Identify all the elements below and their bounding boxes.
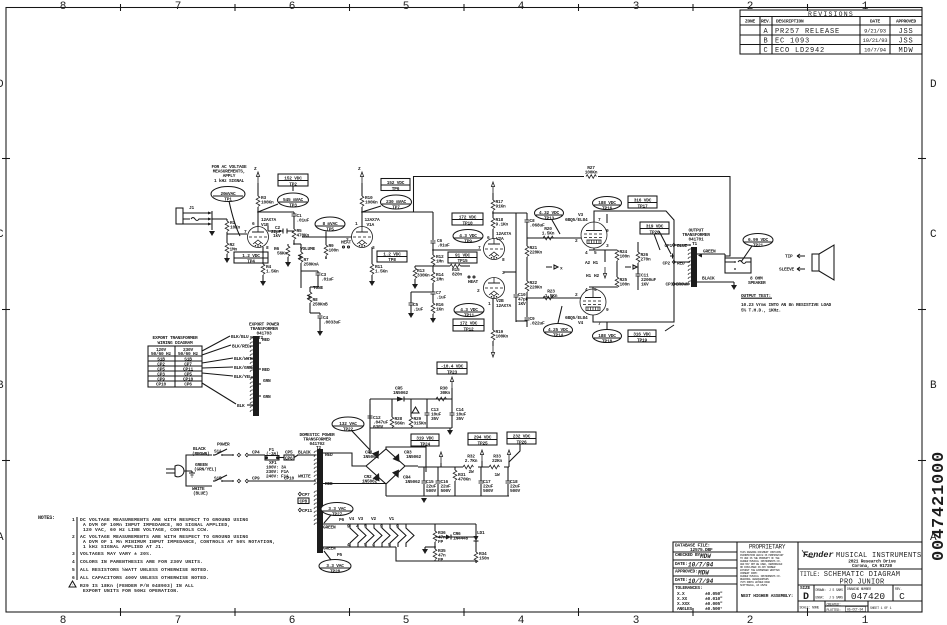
svg-text:CHECKED BY:: CHECKED BY: xyxy=(675,552,703,558)
svg-text:91Kn: 91Kn xyxy=(496,204,507,210)
svg-text:PRO JUNIOR: PRO JUNIOR xyxy=(839,579,885,587)
svg-text:MDW: MDW xyxy=(699,553,712,560)
svg-text:150n: 150n xyxy=(479,556,490,562)
svg-text:MDW: MDW xyxy=(697,570,710,577)
svg-text:WHITE: WHITE xyxy=(298,474,311,480)
svg-text:7: 7 xyxy=(175,1,182,13)
svg-text:4.25 VDC: 4.25 VDC xyxy=(548,327,569,333)
svg-text:56Kn: 56Kn xyxy=(395,421,406,427)
svg-text:T1: T1 xyxy=(692,241,698,247)
svg-text:FP: FP xyxy=(438,557,444,563)
svg-text:TP4: TP4 xyxy=(247,259,255,265)
svg-text:30Kn: 30Kn xyxy=(440,390,451,396)
svg-text:56Kn: 56Kn xyxy=(277,251,288,257)
svg-text:250KnB: 250KnB xyxy=(313,302,329,308)
svg-text:CP1: CP1 xyxy=(664,243,672,249)
svg-text:8: 8 xyxy=(60,1,67,13)
svg-text:GREEN: GREEN xyxy=(323,546,336,552)
svg-text:A: A xyxy=(0,532,4,544)
svg-text:.1uF: .1uF xyxy=(413,307,424,313)
svg-text:7: 7 xyxy=(175,615,182,625)
svg-text:TP6: TP6 xyxy=(392,186,400,192)
svg-text:CP3: CP3 xyxy=(665,282,673,288)
svg-text:TOLERANCES:: TOLERANCES: xyxy=(675,585,703,591)
svg-text:(GRN/YEL): (GRN/YEL) xyxy=(194,467,217,473)
svg-text:10Kn: 10Kn xyxy=(230,225,241,231)
svg-text:A2: A2 xyxy=(585,260,591,266)
svg-text:TP9: TP9 xyxy=(464,239,472,245)
svg-text:TP17: TP17 xyxy=(637,204,648,210)
svg-text:100Kn: 100Kn xyxy=(365,200,378,206)
svg-text:.068uF: .068uF xyxy=(530,223,546,229)
svg-text:CP8: CP8 xyxy=(300,499,308,505)
svg-text:TP12: TP12 xyxy=(463,327,474,333)
svg-text:DATE:: DATE: xyxy=(675,577,688,583)
svg-text:BLK/BLU: BLK/BLU xyxy=(231,334,249,340)
svg-text:1KV: 1KV xyxy=(641,282,649,288)
svg-text:C: C xyxy=(763,47,768,55)
svg-text:V1A: V1A xyxy=(367,222,375,228)
svg-text:RED: RED xyxy=(677,261,685,267)
svg-text:V4: V4 xyxy=(349,516,355,522)
svg-text:REVISIONS: REVISIONS xyxy=(808,11,854,18)
svg-text:294 VDC: 294 VDC xyxy=(474,435,492,441)
svg-text:047420: 047420 xyxy=(851,591,886,602)
svg-text:J1: J1 xyxy=(189,205,195,211)
svg-text:1.5Kn: 1.5Kn xyxy=(545,293,558,299)
svg-text:2: 2 xyxy=(72,534,75,540)
svg-text:TP23: TP23 xyxy=(447,370,458,376)
svg-text:GRN: GRN xyxy=(263,394,271,400)
svg-text:2W: 2W xyxy=(468,469,474,475)
svg-text:100Kn: 100Kn xyxy=(496,334,509,340)
svg-text:240V: F1A: 240V: F1A xyxy=(266,474,289,480)
svg-text:APPROVED: APPROVED xyxy=(896,19,917,25)
svg-text:100n: 100n xyxy=(620,282,631,288)
svg-text:120 VAC, 60 Hz LINE VOLTAGE, C: 120 VAC, 60 Hz LINE VOLTAGE, CONTROLS CC… xyxy=(83,527,209,533)
svg-text:4: 4 xyxy=(518,615,525,625)
svg-text:B: B xyxy=(763,38,768,46)
svg-text:152 VDC: 152 VDC xyxy=(387,180,405,186)
svg-text:470Kn: 470Kn xyxy=(297,233,310,239)
svg-text:5: 5 xyxy=(403,1,410,13)
svg-text:C: C xyxy=(899,591,905,602)
svg-text:630V: 630V xyxy=(373,424,384,430)
svg-text:!: ! xyxy=(72,584,74,587)
svg-text:CP11: CP11 xyxy=(302,508,313,514)
svg-text:RED: RED xyxy=(262,367,270,373)
svg-text:1.5Kn: 1.5Kn xyxy=(266,269,279,275)
svg-text:SLEEVE: SLEEVE xyxy=(779,267,795,273)
svg-text:100n: 100n xyxy=(620,254,631,260)
svg-text:WIRING DIAGRAM: WIRING DIAGRAM xyxy=(157,340,193,346)
svg-text:CP9: CP9 xyxy=(252,476,260,482)
svg-text:05-OCT-94: 05-OCT-94 xyxy=(847,608,863,612)
svg-text:2.7Kn: 2.7Kn xyxy=(465,458,478,464)
svg-text:DATE: DATE xyxy=(870,19,881,25)
svg-text:TP27: TP27 xyxy=(332,512,343,518)
svg-text:JSS: JSS xyxy=(898,38,913,46)
svg-text:(BROWN): (BROWN) xyxy=(192,451,210,457)
svg-text:1: 1 xyxy=(72,517,75,523)
svg-text:SPEAKER: SPEAKER xyxy=(748,280,766,286)
svg-text:10/21/93: 10/21/93 xyxy=(863,37,888,44)
svg-text:TP28: TP28 xyxy=(330,569,341,575)
svg-text:H1: H1 xyxy=(593,260,599,266)
svg-text:1N5062: 1N5062 xyxy=(405,479,421,485)
svg-text:SCALE: NONE: SCALE: NONE xyxy=(800,606,820,610)
svg-text:BROWN: BROWN xyxy=(676,282,689,288)
svg-text:5: 5 xyxy=(72,567,75,573)
svg-text:3: 3 xyxy=(72,551,75,557)
svg-text:316 VDC: 316 VDC xyxy=(633,332,651,338)
svg-text:4.32 VDC: 4.32 VDC xyxy=(539,210,560,216)
svg-text:1kV: 1kV xyxy=(273,233,281,239)
svg-text:TP11: TP11 xyxy=(464,313,475,319)
svg-text:22Kn: 22Kn xyxy=(492,458,503,464)
svg-text:10/7/94: 10/7/94 xyxy=(864,47,887,54)
svg-text:J S SAMS: J S SAMS xyxy=(829,596,843,600)
svg-text:20mVAC: 20mVAC xyxy=(220,191,236,197)
svg-text:132 VAC: 132 VAC xyxy=(339,421,357,427)
svg-text:1N5062: 1N5062 xyxy=(363,454,379,460)
svg-text:GREEN: GREEN xyxy=(323,525,336,531)
svg-text:500V: 500V xyxy=(510,488,521,494)
svg-text:ZONE: ZONE xyxy=(745,19,756,25)
svg-text:188 VDC: 188 VDC xyxy=(598,200,616,206)
svg-text:TP7: TP7 xyxy=(392,205,400,211)
svg-text:12AX7A: 12AX7A xyxy=(496,303,512,309)
svg-text:50/60 Hz: 50/60 Hz xyxy=(151,351,172,357)
svg-text:EXPORT UNITS FOR 50Hz OPERATIO: EXPORT UNITS FOR 50Hz OPERATION. xyxy=(83,588,179,594)
svg-text:BLACK: BLACK xyxy=(702,276,715,282)
svg-text:PROPRIETARY: PROPRIETARY xyxy=(749,544,786,551)
svg-text:CP10: CP10 xyxy=(156,382,167,388)
svg-text:TP19: TP19 xyxy=(637,338,648,344)
svg-text:6BQ5/EL84: 6BQ5/EL84 xyxy=(565,315,588,321)
svg-text:LD1: LD1 xyxy=(477,530,485,536)
svg-text:DESCRIPTION: DESCRIPTION xyxy=(776,19,804,25)
svg-text:8: 8 xyxy=(60,615,67,625)
svg-text:35V: 35V xyxy=(431,416,439,422)
svg-text:(-3A): (-3A) xyxy=(266,451,279,457)
svg-text:9.1Kn: 9.1Kn xyxy=(496,222,509,228)
svg-text:1 kHz SIGNAL: 1 kHz SIGNAL xyxy=(214,178,245,184)
svg-text:470Kn: 470Kn xyxy=(458,477,471,483)
svg-text:3: 3 xyxy=(633,615,640,625)
svg-text:BLUE: BLUE xyxy=(677,243,688,249)
svg-text:.0033uF: .0033uF xyxy=(323,320,341,326)
svg-text:TP21: TP21 xyxy=(753,243,764,249)
svg-text:V3: V3 xyxy=(358,516,364,522)
svg-text:Corona, CA 91720: Corona, CA 91720 xyxy=(852,563,893,569)
svg-text:PLOTTED:: PLOTTED: xyxy=(827,608,841,612)
svg-text:D: D xyxy=(803,592,809,603)
svg-text:0047421000: 0047421000 xyxy=(930,451,947,561)
svg-text:REV.: REV. xyxy=(761,19,771,25)
svg-text:P6: P6 xyxy=(339,517,345,523)
svg-text:CREATED:: CREATED: xyxy=(827,603,841,607)
svg-text:TP1: TP1 xyxy=(224,197,232,203)
svg-text:1: 1 xyxy=(862,615,869,625)
svg-text:TP15: TP15 xyxy=(457,258,468,264)
svg-text:1: 1 xyxy=(862,1,869,13)
svg-text:5: 5 xyxy=(403,615,410,625)
svg-text:TP8: TP8 xyxy=(388,257,396,263)
svg-text:.1uF: .1uF xyxy=(436,295,447,301)
svg-text:CP2: CP2 xyxy=(662,261,670,267)
svg-text:1.2 VDC: 1.2 VDC xyxy=(383,252,401,258)
svg-text:9/21/93: 9/21/93 xyxy=(864,28,886,35)
svg-text:188 VDC: 188 VDC xyxy=(598,333,616,339)
svg-text:SIZE: SIZE xyxy=(800,585,811,591)
svg-text:6: 6 xyxy=(289,615,296,625)
svg-text:500V: 500V xyxy=(483,488,494,494)
svg-text:TP25: TP25 xyxy=(477,441,488,447)
svg-text:1Kn: 1Kn xyxy=(436,307,444,313)
svg-text:35V: 35V xyxy=(456,416,464,422)
svg-text:1.5Kn: 1.5Kn xyxy=(375,269,388,275)
svg-text:BLK/YEL: BLK/YEL xyxy=(234,374,252,380)
svg-text:TONE: TONE xyxy=(313,285,324,291)
svg-text:DRAWN:: DRAWN: xyxy=(816,588,827,592)
svg-text:BLK/GRN: BLK/GRN xyxy=(234,365,252,371)
svg-text:.022uF: .022uF xyxy=(530,321,546,327)
svg-text:4.3 VDC: 4.3 VDC xyxy=(459,233,477,239)
svg-text:5% T.H.D., 1KHz.: 5% T.H.D., 1KHz. xyxy=(741,308,781,314)
svg-text:APPROVED:: APPROVED: xyxy=(675,569,698,575)
svg-text:172 VDC: 172 VDC xyxy=(460,321,478,327)
svg-text:1.2 VDC: 1.2 VDC xyxy=(242,253,260,259)
svg-text:TP5: TP5 xyxy=(326,227,334,233)
svg-text:VOLTAGES MAY VARY ± 20%.: VOLTAGES MAY VARY ± 20%. xyxy=(80,551,152,557)
svg-text:2: 2 xyxy=(747,615,754,625)
svg-text:JSS: JSS xyxy=(898,28,913,36)
svg-text:RED: RED xyxy=(262,337,270,343)
svg-text:DATE:: DATE: xyxy=(675,561,688,567)
svg-text:1N5062: 1N5062 xyxy=(406,454,422,460)
svg-text:230 mVAC: 230 mVAC xyxy=(386,199,407,205)
svg-text:GRN: GRN xyxy=(263,378,271,384)
svg-text:3.3 VAC: 3.3 VAC xyxy=(326,563,344,569)
svg-text:545 mVAC: 545 mVAC xyxy=(283,197,304,203)
svg-text:315Kn: 315Kn xyxy=(414,421,427,427)
svg-text:316 VDC: 316 VDC xyxy=(634,198,652,204)
svg-text:ANGLES: ANGLES xyxy=(677,606,693,612)
svg-text:TIP: TIP xyxy=(785,254,793,260)
svg-text:232 VDC: 232 VDC xyxy=(513,434,531,440)
svg-text:319 VDC: 319 VDC xyxy=(416,436,434,442)
svg-text:VOLUME: VOLUME xyxy=(300,246,316,252)
svg-text:±0.500°: ±0.500° xyxy=(705,606,723,612)
svg-text:1.5Kn: 1.5Kn xyxy=(542,231,555,237)
svg-text:1 kHz SIGNAL APPLIED AT J1.: 1 kHz SIGNAL APPLIED AT J1. xyxy=(83,544,164,550)
svg-text:1N4448: 1N4448 xyxy=(453,536,469,542)
svg-text:250KnA: 250KnA xyxy=(304,262,320,268)
svg-text:100n: 100n xyxy=(329,248,340,254)
svg-text:ENGR:: ENGR: xyxy=(816,596,825,600)
svg-text:-10.4 VDC: -10.4 VDC xyxy=(441,364,464,370)
svg-text:H1: H1 xyxy=(586,273,592,279)
svg-text:NOTES:: NOTES: xyxy=(38,515,55,521)
svg-text:3: 3 xyxy=(633,1,640,13)
svg-text:D: D xyxy=(930,79,937,91)
svg-text:SCOTTSDALE, AZ 85258: SCOTTSDALE, AZ 85258 xyxy=(740,584,768,587)
svg-text:C: C xyxy=(0,229,4,241)
svg-text:820n: 820n xyxy=(452,272,463,278)
svg-text:1N5062: 1N5062 xyxy=(393,390,409,396)
svg-text:152 VDC: 152 VDC xyxy=(284,176,302,182)
svg-text:ALL CAPACITORS 400V UNLESS OTH: ALL CAPACITORS 400V UNLESS OTHERWISE NOT… xyxy=(80,575,209,581)
svg-text:J S SAMS: J S SAMS xyxy=(829,588,843,592)
svg-text:100Kn: 100Kn xyxy=(261,200,274,206)
svg-text:2: 2 xyxy=(747,1,754,13)
svg-text:4: 4 xyxy=(518,1,525,13)
svg-text:172 VDC: 172 VDC xyxy=(459,215,477,221)
svg-text:220Kn: 220Kn xyxy=(530,250,543,256)
svg-text:CP4: CP4 xyxy=(252,450,260,456)
svg-text:CP6: CP6 xyxy=(285,455,293,461)
svg-text:220Kn: 220Kn xyxy=(530,285,543,291)
svg-text:270n: 270n xyxy=(641,257,652,263)
svg-text:FP: FP xyxy=(438,539,444,545)
svg-text:EC 1093: EC 1093 xyxy=(775,38,810,46)
svg-text:Fender: Fender xyxy=(803,550,834,560)
svg-text:COLORS IN PARENTHESIS ARE FOR: COLORS IN PARENTHESIS ARE FOR 230V UNITS… xyxy=(80,559,203,565)
svg-text:4: 4 xyxy=(72,559,75,565)
svg-text:HEAT: HEAT xyxy=(468,279,479,285)
svg-text:500V: 500V xyxy=(426,488,437,494)
svg-text:10/7/94: 10/7/94 xyxy=(688,578,714,585)
svg-text:SHEET 1 OF 1: SHEET 1 OF 1 xyxy=(870,606,892,610)
svg-text:ECO LD2942: ECO LD2942 xyxy=(775,47,825,55)
svg-text:.01uF: .01uF xyxy=(437,243,450,249)
svg-text:MDW: MDW xyxy=(898,47,913,55)
svg-text:.01uF: .01uF xyxy=(321,277,334,283)
svg-text:500V: 500V xyxy=(441,488,452,494)
svg-text:BLK/WHT: BLK/WHT xyxy=(234,356,252,362)
svg-text:BLK/RED: BLK/RED xyxy=(232,344,250,350)
svg-text:D: D xyxy=(0,79,4,91)
svg-text:1KV: 1KV xyxy=(518,301,526,307)
svg-text:A: A xyxy=(763,28,768,36)
svg-text:CP6: CP6 xyxy=(184,382,192,388)
svg-text:PR257 RELEASE: PR257 RELEASE xyxy=(775,28,840,36)
svg-text:BLK: BLK xyxy=(237,403,245,409)
svg-text:100Kn: 100Kn xyxy=(585,170,598,176)
svg-text:TITLE:: TITLE: xyxy=(800,571,820,578)
svg-text:50/60 Hz: 50/60 Hz xyxy=(178,351,199,357)
svg-text:3.3 VAC: 3.3 VAC xyxy=(328,506,346,512)
svg-text:V1: V1 xyxy=(389,516,395,522)
svg-text:P5: P5 xyxy=(337,552,343,558)
svg-text:CP7: CP7 xyxy=(302,492,310,498)
svg-text:B: B xyxy=(930,380,937,392)
svg-text:6BQ5/EL84: 6BQ5/EL84 xyxy=(565,217,588,223)
svg-text:TP18: TP18 xyxy=(602,339,613,345)
svg-text:TP3: TP3 xyxy=(289,203,297,209)
svg-text:TP24: TP24 xyxy=(420,442,431,448)
svg-text:6.99 VDC: 6.99 VDC xyxy=(748,237,769,243)
svg-text:B: B xyxy=(0,380,4,392)
svg-text:TP14: TP14 xyxy=(553,333,564,339)
svg-text:6: 6 xyxy=(289,1,296,13)
svg-text:V4: V4 xyxy=(578,320,584,326)
svg-text:C: C xyxy=(930,229,937,241)
svg-text:V2: V2 xyxy=(371,516,377,522)
svg-text:319 VDC: 319 VDC xyxy=(646,224,664,230)
svg-text:V2A: V2A xyxy=(496,236,504,242)
svg-text:1Mn: 1Mn xyxy=(436,259,444,265)
svg-text:.01uF: .01uF xyxy=(297,218,310,224)
svg-text:ALL RESISTORS ½WATT UNLESS OTH: ALL RESISTORS ½WATT UNLESS OTHERWISE NOT… xyxy=(80,567,209,573)
svg-text:TP10: TP10 xyxy=(462,221,473,227)
svg-text:TP26: TP26 xyxy=(516,440,527,446)
svg-text:10.23 Vrms INTO AN 8n RESISTIV: 10.23 Vrms INTO AN 8n RESISTIVE LOAD xyxy=(741,302,832,308)
svg-text:NEXT HIGHER ASSEMBLY:: NEXT HIGHER ASSEMBLY: xyxy=(741,593,794,599)
svg-text:8 mVAC: 8 mVAC xyxy=(322,221,338,227)
svg-text:10/7/94: 10/7/94 xyxy=(688,562,714,569)
svg-text:4.3 VDC: 4.3 VDC xyxy=(460,307,478,313)
svg-text:(BLUE): (BLUE) xyxy=(193,491,208,497)
svg-text:330Kn: 330Kn xyxy=(417,273,430,279)
svg-text:91 VDC: 91 VDC xyxy=(455,253,471,259)
svg-text:POWER: POWER xyxy=(217,442,230,448)
svg-text:H2: H2 xyxy=(594,273,600,279)
svg-text:1W: 1W xyxy=(494,472,500,478)
svg-text:1Mn: 1Mn xyxy=(436,277,444,283)
